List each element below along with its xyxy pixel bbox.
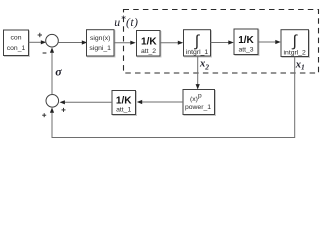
block att_1: [112, 91, 137, 116]
svg-text:1/K: 1/K: [116, 95, 132, 106]
svg-text:1/K: 1/K: [238, 35, 254, 46]
svg-text:x1: x1: [295, 59, 305, 71]
block signi_1: [87, 30, 116, 57]
svg-text:con_1: con_1: [7, 45, 26, 52]
wire intgrl_1 to power_1 (x2 branch): [196, 56, 200, 90]
svg-text:1/K: 1/K: [141, 37, 157, 48]
wire con_1 to sum_1: [29, 40, 47, 44]
svg-text:u*(t): u*(t): [114, 15, 138, 30]
wire intgrl_1 to att_3: [211, 40, 234, 44]
block att_3: [234, 29, 259, 56]
svg-text:sign(x): sign(x): [90, 35, 110, 42]
svg-text:att_3: att_3: [238, 47, 253, 54]
wire signi_1 to att_2: [114, 41, 136, 45]
svg-text:power_1: power_1: [185, 104, 211, 111]
wire att_2 to intgrl_1: [160, 41, 183, 45]
plus sign at sum_2 bottom input: [42, 113, 46, 117]
block con_1: [4, 30, 30, 57]
minus sign at sum_1 lower input: [43, 52, 47, 54]
plus sign at sum_1 upper input: [38, 33, 42, 37]
svg-text:att_2: att_2: [141, 48, 156, 55]
svg-text:σ: σ: [55, 64, 62, 78]
wire sum_1 to signi_1: [58, 40, 87, 44]
block att_2: [137, 31, 162, 58]
summing junction sum_1: [46, 34, 59, 47]
svg-text:att_1: att_1: [116, 106, 131, 113]
svg-text:intgrl_2: intgrl_2: [284, 49, 307, 56]
wire att_3 to intgrl_2: [258, 40, 281, 44]
block intgrl_2: [281, 30, 310, 58]
svg-text:intgrl_1: intgrl_1: [186, 49, 209, 56]
summing junction sum_2: [46, 95, 59, 108]
feedback wire intgrl_2 to sum_2 (x1 loop): [50, 57, 295, 138]
svg-text:con: con: [11, 34, 22, 41]
wire att_1 to sum_2: [60, 100, 113, 104]
block intgrl_1: [184, 30, 212, 57]
block power_1: [183, 90, 216, 116]
wire power_1 to att_1: [137, 100, 183, 104]
dashed subsystem boundary: [124, 10, 319, 74]
wire sum_2 to sum_1 (sigma feedback): [50, 47, 54, 94]
svg-text:x2: x2: [199, 58, 209, 71]
plus sign at sum_2 right input: [62, 108, 66, 112]
svg-text:signi_1: signi_1: [89, 45, 111, 52]
